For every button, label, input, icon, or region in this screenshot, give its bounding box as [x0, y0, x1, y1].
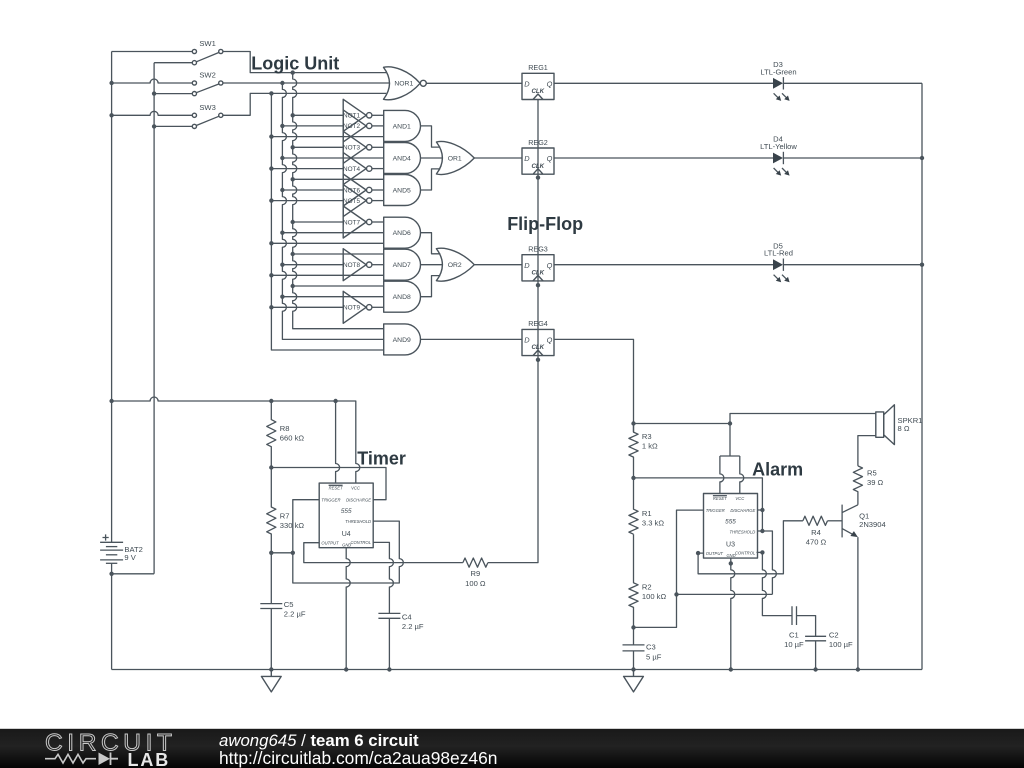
- junction net B at bus2: [280, 81, 284, 85]
- led D3 LTL-Green: [773, 78, 783, 89]
- svg-text:R4: R4: [811, 528, 821, 537]
- wire tap netA row4: [293, 114, 344, 116]
- inverter NOT7: [343, 206, 366, 238]
- svg-text:RESET: RESET: [713, 496, 727, 501]
- svg-text:REG2: REG2: [528, 138, 548, 147]
- wire R2 tap to THRESHOLD riser: [677, 593, 773, 595]
- and-gate AND5: [384, 175, 421, 206]
- svg-text:100 Ω: 100 Ω: [465, 579, 486, 588]
- svg-text:D: D: [524, 336, 530, 345]
- wire SW1 pole: [154, 62, 192, 64]
- wire AND4 to OR1: [421, 157, 443, 159]
- svg-text:OR1: OR1: [448, 155, 462, 162]
- inverter NOT8: [343, 249, 366, 281]
- svg-text:Timer: Timer: [357, 449, 406, 469]
- inverter NOT1: [343, 99, 366, 131]
- svg-text:2N3904: 2N3904: [859, 520, 886, 529]
- capacitor C1 10uF: [792, 606, 797, 625]
- switch SW1: [192, 49, 196, 53]
- wire C1 to C2: [797, 616, 816, 637]
- wire tap netB row5: [282, 125, 343, 127]
- svg-text:9 V: 9 V: [124, 553, 136, 562]
- svg-text:LTL-Red: LTL-Red: [764, 249, 793, 258]
- svg-text:C1: C1: [789, 631, 799, 640]
- wire U4 GND down: [346, 548, 350, 670]
- svg-text:AND8: AND8: [393, 294, 411, 301]
- svg-text:OUTPUT: OUTPUT: [706, 551, 724, 556]
- svg-text:NOT4: NOT4: [343, 166, 360, 173]
- wire U3 RESET/VCC bar: [720, 455, 740, 457]
- svg-text:TRIGGER: TRIGGER: [321, 498, 340, 503]
- wire bus net C (SW3): [271, 93, 383, 350]
- svg-text:Q: Q: [547, 154, 553, 163]
- inverter NOT3: [343, 131, 366, 163]
- svg-text:555: 555: [725, 519, 736, 526]
- and-gate AND6: [384, 217, 421, 248]
- svg-text:http://circuitlab.com/ca2aua98: http://circuitlab.com/ca2aua98ez46n: [219, 748, 497, 768]
- wire R2/C3 junction: [631, 625, 635, 629]
- flip-flop REG3: [522, 255, 554, 281]
- svg-text:SW2: SW2: [199, 71, 215, 80]
- svg-text:NOT8: NOT8: [343, 262, 360, 269]
- resistor R5 39: [853, 466, 862, 505]
- resistor R7 330k: [267, 468, 276, 553]
- wire U3 OUTPUT to R4: [698, 521, 803, 574]
- wire REG3 Q to D5: [554, 264, 773, 266]
- wire AND9 out to REG4 D: [421, 338, 523, 340]
- resistor R8 660k: [267, 401, 276, 468]
- wire AND5 to OR1: [421, 169, 441, 190]
- svg-text:C5: C5: [284, 600, 294, 609]
- wire U4 TRIGGER/THRESHOLD loop: [293, 500, 404, 583]
- svg-text:DISCHARGE: DISCHARGE: [730, 508, 755, 513]
- svg-text:39 Ω: 39 Ω: [867, 478, 884, 487]
- svg-text:D: D: [524, 80, 530, 89]
- ic U3 555 alarm: [704, 494, 758, 559]
- svg-text:R8: R8: [280, 424, 290, 433]
- ground (timer): [261, 670, 281, 692]
- wire tap netC row9: [271, 168, 343, 170]
- ground (alarm): [624, 670, 644, 692]
- svg-text:330 kΩ: 330 kΩ: [280, 521, 305, 530]
- wire SW2 to NOR1 (net B): [223, 82, 389, 84]
- resistor R4 470: [803, 516, 828, 525]
- svg-text:470 Ω: 470 Ω: [806, 538, 827, 547]
- svg-text:D: D: [524, 261, 530, 270]
- svg-text:C3: C3: [646, 643, 656, 652]
- transistor Q1 2N3904: [841, 505, 843, 538]
- wire tap netC row16: [271, 242, 383, 244]
- svg-text:LTL-Green: LTL-Green: [760, 67, 796, 76]
- and-gate AND7: [384, 249, 421, 280]
- wire switch-pole rail: [153, 63, 155, 574]
- wire SW2 pole: [154, 93, 192, 95]
- svg-text:5 µF: 5 µF: [646, 652, 662, 661]
- svg-text:AND1: AND1: [393, 123, 411, 130]
- wire tap netA row7: [293, 146, 344, 148]
- wire tap netB row8: [282, 157, 383, 159]
- and-gate AND4: [384, 143, 421, 174]
- wire D3 to right rail: [783, 82, 922, 84]
- ic U4 555 timer: [319, 483, 373, 548]
- svg-text:OUTPUT: OUTPUT: [321, 541, 339, 546]
- switch SW3: [192, 113, 196, 117]
- svg-text:REG3: REG3: [528, 245, 548, 254]
- svg-text:Logic Unit: Logic Unit: [251, 54, 339, 74]
- wire tap netC row22: [271, 306, 343, 308]
- svg-text:Q: Q: [547, 261, 553, 270]
- wire alarm power to U3/speaker: [634, 423, 731, 425]
- svg-text:R7: R7: [280, 512, 290, 521]
- wire R4 to Q1 base: [828, 520, 843, 522]
- svg-text:R1: R1: [642, 509, 652, 518]
- wire tap netA row17: [293, 253, 384, 255]
- wire SW3 input: [112, 111, 193, 115]
- svg-text:Q: Q: [547, 80, 553, 89]
- svg-text:Flip-Flop: Flip-Flop: [507, 214, 583, 234]
- svg-text:SW3: SW3: [199, 103, 215, 112]
- wire battery+ left rail: [111, 52, 113, 543]
- wire tap netB row15: [282, 232, 383, 234]
- wire AND6 to OR2: [421, 233, 441, 254]
- svg-text:NOR1: NOR1: [394, 81, 413, 88]
- flip-flop REG1: [522, 73, 554, 99]
- svg-text:CONTROL: CONTROL: [735, 550, 756, 555]
- svg-text:R2: R2: [642, 583, 652, 592]
- svg-text:R3: R3: [642, 432, 652, 441]
- wire U4 CONTROL to C4: [373, 542, 393, 613]
- capacitor C4 2.2uF: [378, 613, 400, 618]
- wire clock chain: [488, 99, 538, 562]
- wire tap netB row11: [282, 189, 343, 191]
- resistor R3 1k: [629, 424, 638, 478]
- wire tap netA row10: [293, 178, 384, 180]
- wire right return rail: [921, 83, 923, 669]
- wire SW3 to NOR1 (net C): [223, 93, 386, 115]
- svg-text:3.3 kΩ: 3.3 kΩ: [642, 519, 664, 528]
- wire tap netC row12: [271, 200, 343, 202]
- resistor R9 100: [463, 558, 488, 567]
- svg-text:TRIGGER: TRIGGER: [706, 508, 725, 513]
- capacitor C5 2.2uF: [270, 553, 272, 670]
- wire ground rail: [112, 669, 922, 671]
- wire tap netC row19: [271, 274, 383, 276]
- svg-text:THRESHOLD: THRESHOLD: [729, 529, 755, 534]
- svg-text:Alarm: Alarm: [752, 459, 803, 479]
- svg-text:D: D: [524, 154, 530, 163]
- wire R8 to U4 DISCHARGE: [271, 468, 386, 500]
- svg-text:REG1: REG1: [528, 63, 548, 72]
- inverter NOT2: [343, 110, 366, 142]
- svg-text:8 Ω: 8 Ω: [898, 424, 910, 433]
- wire D5 to right rail: [783, 264, 922, 266]
- wire AND1 to OR1: [421, 126, 441, 147]
- wire AND7 to OR2: [421, 264, 443, 266]
- wire battery- jog: [112, 573, 155, 575]
- and-gate AND8: [384, 281, 421, 312]
- wire SW1 input: [112, 51, 193, 53]
- svg-text:660 kΩ: 660 kΩ: [280, 434, 305, 443]
- wire SW2 input: [112, 79, 193, 83]
- wire U3 CONTROL to C1: [757, 551, 763, 553]
- speaker SPKR1 8ohm: [876, 412, 884, 437]
- svg-text:100 µF: 100 µF: [829, 640, 853, 649]
- wire NOR1 out to REG1 D: [426, 82, 522, 84]
- capacitor C3 5uF: [633, 627, 635, 669]
- wire OR1 out to REG2 D: [474, 157, 522, 159]
- wire AND8 to OR2: [421, 276, 441, 297]
- svg-text:REG4: REG4: [528, 319, 548, 328]
- capacitor C2 100uF: [805, 636, 826, 641]
- led D4 LTL-Yellow: [773, 153, 783, 164]
- resistor R1 3.3k: [629, 478, 638, 534]
- wire Q1 emitter down: [857, 537, 859, 669]
- svg-text:100 kΩ: 100 kΩ: [642, 592, 667, 601]
- wire bus net B (SW2): [282, 83, 383, 339]
- wire U3 GND down: [731, 558, 735, 669]
- wire trigger to R7/C5: [271, 552, 293, 554]
- svg-text:THRESHOLD: THRESHOLD: [345, 519, 371, 524]
- svg-text:Q: Q: [547, 336, 553, 345]
- svg-text:U3: U3: [726, 541, 735, 548]
- wire U4 RESET riser: [336, 401, 340, 483]
- svg-text:LAB: LAB: [128, 750, 171, 768]
- battery BAT2 9V: [100, 541, 123, 543]
- led D5 LTL-Red: [773, 259, 783, 270]
- svg-text:OR2: OR2: [448, 262, 462, 269]
- svg-text:VCC: VCC: [351, 486, 361, 491]
- svg-text:AND5: AND5: [393, 187, 411, 194]
- wire VCC rail: [112, 397, 360, 483]
- svg-text:SW1: SW1: [199, 39, 215, 48]
- inverter NOT9: [343, 291, 366, 323]
- svg-text:CONTROL: CONTROL: [351, 540, 372, 545]
- or-gate OR1: [436, 142, 474, 175]
- svg-text:DISCHARGE: DISCHARGE: [346, 498, 371, 503]
- svg-text:R9: R9: [471, 569, 481, 578]
- svg-text:NOT3: NOT3: [343, 145, 360, 152]
- svg-text:AND4: AND4: [393, 155, 411, 162]
- inverter NOT5: [343, 185, 366, 217]
- inverter NOT6: [343, 174, 366, 206]
- svg-text:R5: R5: [867, 468, 877, 477]
- wire bus net A (SW1): [293, 73, 384, 329]
- svg-text:RESET: RESET: [329, 486, 343, 491]
- wire D4 to right rail: [783, 157, 922, 159]
- or-gate OR2: [436, 248, 474, 281]
- wire speaker- to R5: [858, 436, 876, 466]
- wire REG4 Q to alarm rail: [554, 339, 634, 432]
- svg-text:C4: C4: [402, 612, 412, 621]
- svg-text:AND6: AND6: [393, 230, 411, 237]
- and-gate AND1: [384, 110, 421, 141]
- svg-text:NOT5: NOT5: [343, 198, 360, 205]
- svg-text:NOT9: NOT9: [343, 305, 360, 312]
- switch SW2: [192, 81, 196, 85]
- svg-text:2.2 µF: 2.2 µF: [284, 609, 306, 618]
- wire SW3 pole: [154, 125, 192, 127]
- junction net C at bus3: [269, 91, 273, 95]
- wire REG2 Q to D4: [554, 157, 773, 159]
- wire R3/R1 junction to DISCHARGE/THRESHOLD: [634, 478, 763, 531]
- svg-text:1 kΩ: 1 kΩ: [642, 441, 658, 450]
- wire OR2 out to REG3 D: [474, 264, 522, 266]
- flip-flop REG2: [522, 148, 554, 174]
- wire U3 TRIGGER to R2/C3: [634, 510, 704, 627]
- junction net A at bus1: [291, 70, 295, 74]
- svg-text:AND7: AND7: [393, 262, 411, 269]
- svg-text:LTL-Yellow: LTL-Yellow: [760, 142, 797, 151]
- and-gate AND9: [384, 324, 421, 355]
- svg-text:10 µF: 10 µF: [784, 640, 804, 649]
- footer bar: [0, 729, 1024, 768]
- wire tap netA row14: [293, 221, 344, 223]
- svg-text:VCC: VCC: [735, 496, 745, 501]
- wire tap netB row21: [282, 296, 383, 298]
- wire tap netB row18: [282, 264, 343, 266]
- wire SW1 to NOR1 (net A): [223, 52, 386, 73]
- wire U4 OUTPUT to R9: [304, 543, 463, 563]
- wire battery- to ground rail: [111, 563, 113, 669]
- svg-text:555: 555: [341, 508, 352, 515]
- svg-text:NOT2: NOT2: [343, 123, 360, 130]
- svg-text:awong645 / team 6 circuit: awong645 / team 6 circuit: [219, 731, 419, 750]
- wire REG1 Q to D3: [554, 82, 773, 84]
- svg-text:AND9: AND9: [393, 337, 411, 344]
- wire tap netC row6: [271, 136, 383, 138]
- flip-flop REG4: [522, 329, 554, 355]
- svg-text:NOT7: NOT7: [343, 219, 360, 226]
- svg-text:U4: U4: [342, 531, 351, 538]
- nor-gate NOR1: [384, 67, 421, 100]
- svg-text:C2: C2: [829, 631, 839, 640]
- inverter NOT4: [343, 153, 366, 185]
- wire tap netA row20: [293, 285, 384, 287]
- svg-text:2.2 µF: 2.2 µF: [402, 622, 424, 631]
- resistor R2 100k: [629, 534, 638, 627]
